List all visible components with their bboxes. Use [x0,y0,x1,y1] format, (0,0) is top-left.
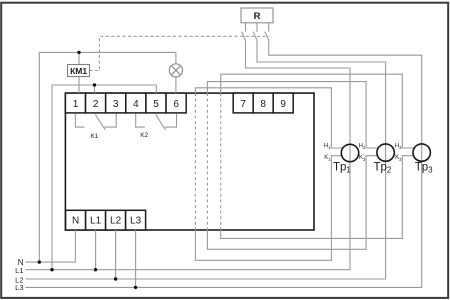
svg-text:H1: H1 [324,143,331,150]
junction N riser / KM1 [77,51,80,54]
ripple control receiver R [241,8,273,23]
wire R lead 1 [245,23,247,32]
wire Tp1 H to meter [195,88,343,148]
wire Tp1 primary to L1 bus [26,162,351,270]
wire KM1 to terminal 1 [78,77,80,94]
svg-text:K2: K2 [359,155,366,162]
terminal 5 [146,93,166,113]
svg-text:3: 3 [113,99,119,110]
svg-text:6: 6 [173,99,179,110]
current transformer Tp3 [413,144,430,161]
svg-text:9: 9 [280,99,286,110]
wire Tp3 primary to L3 bus [26,161,422,287]
wire R3 to Tp3 primary [269,41,422,144]
svg-text:R: R [254,11,261,22]
svg-text:5: 5 [153,99,159,110]
terminal L3 [126,210,146,230]
svg-text:L1: L1 [15,266,23,275]
terminal 3 [106,93,126,113]
wire Tp2 H to meter [207,82,378,148]
terminal 2 [86,93,106,113]
terminal L1 [86,210,106,230]
terminal 4 [126,93,146,113]
wire Tp2 K return [207,156,377,250]
svg-text:K1: K1 [90,133,98,140]
current transformer Tp2 [377,144,394,161]
wire N riser [39,52,176,262]
junction L3 terminal [134,286,137,289]
svg-text:K1: K1 [324,155,331,162]
meter body (device box) [65,93,314,230]
junction L2 terminal [114,277,117,280]
internal current path A (dashed) [194,93,196,230]
terminal 9 [273,93,293,113]
mechanical linkage KM1-R (dashed) [90,36,269,70]
contact R2 blade [253,32,257,41]
wire terminal L1 down [95,230,97,270]
wire Tp2 primary to L2 bus [26,161,386,279]
terminal 1 [65,93,85,113]
terminal 7 [233,93,253,113]
svg-text:K3: K3 [395,155,402,162]
wire lamp lead top [175,52,177,63]
svg-text:1: 1 [73,99,79,110]
svg-text:L2: L2 [110,216,122,227]
wire terminal L2 down [115,230,117,279]
contact R3 blade [265,32,269,41]
wire L1 riser to terminals 2 and 5 [52,85,156,270]
contact K1 [75,114,116,130]
svg-text:7: 7 [240,99,246,110]
bus N [26,230,76,262]
internal current path C (dashed) [220,93,222,230]
wire Tp3 K return [221,156,414,239]
wire Tp3 H to meter [221,74,415,148]
svg-text:N: N [72,216,79,227]
svg-text:КМ1: КМ1 [70,66,87,76]
svg-text:4: 4 [133,99,139,110]
terminal 8 [253,93,273,113]
wire lamp to terminal 6 [175,77,177,93]
wire Tp2 primary inside circle [385,144,387,161]
junction terminal 2 drop [93,83,96,86]
svg-text:L1: L1 [90,216,102,227]
svg-text:L3: L3 [130,216,142,227]
wire terminal L3 down [135,230,137,287]
terminal L2 [106,210,126,230]
wire R2 to Tp2 primary [257,41,386,144]
junction N bus [38,260,41,263]
svg-text:2: 2 [93,99,99,110]
contactor coil KM1 [68,65,90,77]
wire drop to terminal 2 [94,85,96,93]
wire R1 to Tp1 primary [246,41,351,145]
contact K2 [136,114,177,130]
internal current path B (dashed) [206,93,208,230]
wire KM1 drop [78,52,80,64]
wire Tp1 K return [195,156,342,261]
wire Tp1 primary inside circle [349,144,351,161]
wire R lead 3 [268,23,270,32]
svg-text:H2: H2 [359,143,366,150]
svg-text:8: 8 [260,99,266,110]
indicator lamp [169,64,182,77]
junction L1 terminal [94,268,97,271]
svg-text:L3: L3 [15,283,23,292]
contact R1 blade [242,32,246,41]
junction L1 riser [50,268,53,271]
current transformer Tp1 [341,144,358,161]
svg-text:H3: H3 [395,143,402,150]
svg-text:K2: K2 [140,132,148,139]
terminal 6 [166,93,186,113]
wire R lead 2 [256,23,258,32]
terminal N [66,210,86,230]
wire Tp3 primary inside circle [421,144,423,161]
